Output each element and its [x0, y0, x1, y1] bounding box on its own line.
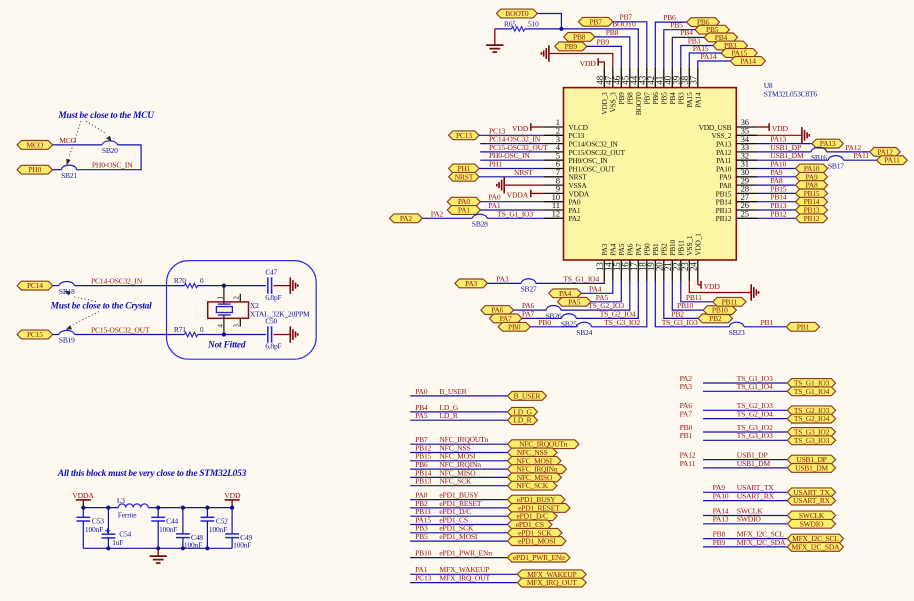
wire NFC_IRQOUTn	[410, 443, 507, 445]
wire TS_G3_IO3	[703, 439, 787, 441]
port ePD1_D/C	[508, 512, 558, 521]
svg-text:TS_G2_IO4: TS_G2_IO4	[737, 410, 773, 419]
pin 45 PB8	[620, 67, 634, 105]
svg-text:PB1: PB1	[680, 431, 693, 440]
pin 15 PA5	[612, 243, 626, 281]
pin 20 PB2	[654, 243, 668, 281]
pin 17 PA7	[629, 243, 643, 281]
svg-text:VDD: VDD	[512, 124, 529, 133]
wire MFX_WAKEUP	[410, 573, 517, 575]
wire TS_G3_IO2	[703, 431, 787, 433]
svg-text:PB9: PB9	[565, 42, 578, 51]
svg-text:12: 12	[552, 209, 560, 219]
pin 34 PA13	[716, 134, 757, 149]
junction node OSC32_OUT	[222, 332, 226, 336]
svg-text:PA13: PA13	[713, 515, 729, 524]
svg-text:PH0-OSC_IN: PH0-OSC_IN	[92, 161, 133, 170]
pin 41 PB5	[654, 67, 668, 105]
svg-text:SB19: SB19	[59, 336, 75, 345]
svg-text:LD_R: LD_R	[439, 411, 458, 420]
svg-text:PB9: PB9	[597, 37, 610, 46]
svg-text:2: 2	[234, 296, 241, 300]
wire pin 21 to PB10	[672, 281, 703, 310]
svg-text:ePD1_PWR_ENn: ePD1_PWR_ENn	[439, 549, 492, 558]
wire PA0	[480, 201, 543, 203]
port PB0	[498, 322, 530, 331]
svg-text:USART_RX: USART_RX	[793, 496, 830, 505]
port PB4	[704, 33, 737, 42]
svg-text:PB10: PB10	[415, 549, 431, 558]
svg-text:VDD: VDD	[580, 59, 597, 68]
svg-text:TS_G1_IO4: TS_G1_IO4	[737, 382, 773, 391]
junction bottom rail 3	[181, 546, 185, 550]
wire ePD1_D/C	[410, 515, 507, 517]
wire PA3 to SB27	[487, 282, 521, 284]
wire PB9 to pin 46	[587, 46, 622, 66]
svg-text:VDD_1: VDD_1	[694, 233, 703, 256]
svg-text:PB12: PB12	[716, 214, 732, 223]
junction BOOT0	[559, 27, 563, 31]
svg-text:ePD1_PWR_ENn: ePD1_PWR_ENn	[513, 553, 565, 562]
port PA13	[812, 139, 843, 148]
port PA9	[796, 172, 828, 181]
svg-text:VDD: VDD	[224, 491, 241, 500]
wire VSS_3 ground to pin 47	[549, 54, 613, 67]
svg-text:PB7: PB7	[620, 13, 633, 22]
dotted leader to SB21	[65, 121, 81, 166]
svg-text:PA14: PA14	[740, 57, 756, 66]
junction top rail 6	[230, 506, 234, 510]
solder bridge SB18	[59, 282, 75, 296]
wire PA7 to SB25	[522, 317, 562, 319]
wire ePD1_PWR_ENn	[410, 557, 507, 559]
svg-text:VDDA: VDDA	[507, 190, 529, 199]
svg-text:SB23: SB23	[729, 328, 745, 337]
pin 42 PB6	[646, 67, 660, 105]
svg-text:PA13: PA13	[820, 139, 836, 148]
pin 8 VSSA	[543, 175, 587, 190]
svg-text:PA11: PA11	[680, 459, 696, 468]
wire MFX_IRQ_OUT	[410, 582, 517, 584]
wire pin 19 to SB23	[655, 281, 729, 327]
svg-text:R71: R71	[174, 325, 186, 334]
port PA11	[877, 156, 908, 165]
port PH0	[17, 165, 52, 174]
wire C48 branch top	[182, 508, 184, 534]
wire R70 to node	[198, 285, 224, 287]
port NFC_MOSI	[508, 456, 562, 465]
port MFX_I2C_SCL	[787, 534, 843, 543]
wire PA14 to pin 37	[698, 61, 731, 67]
wire PB15	[757, 192, 796, 194]
svg-text:PA11: PA11	[853, 151, 869, 160]
wire ePD1_MOSI	[410, 540, 507, 542]
svg-text:SB17: SB17	[828, 161, 844, 170]
dotted leader to SB19	[65, 312, 99, 332]
svg-text:PA0: PA0	[415, 387, 428, 396]
port PC14	[17, 281, 53, 290]
port ePD1_MOSI	[508, 537, 567, 546]
wire PA13	[757, 143, 812, 145]
solder bridge SB25	[561, 314, 577, 329]
svg-text:PA3: PA3	[496, 274, 509, 283]
wire PB4 to pin 40	[672, 37, 704, 66]
wire C52 branch bottom	[206, 521, 208, 548]
wire top rail right	[148, 507, 232, 509]
svg-text:NRST: NRST	[455, 172, 474, 181]
wire PH0-OSC_IN	[480, 159, 543, 161]
wire C53 branch top	[82, 508, 84, 518]
svg-text:TS_G1_IO3: TS_G1_IO3	[497, 209, 533, 218]
pin 43 PB7	[637, 67, 651, 105]
port PB2	[698, 314, 732, 323]
port ePD1_SCK	[508, 528, 563, 537]
pin 13 PA3	[595, 243, 609, 281]
svg-text:PB10: PB10	[712, 306, 728, 315]
svg-text:PA1: PA1	[458, 206, 470, 215]
solder bridge SB23	[729, 322, 745, 337]
wire PC14-OSC32_IN	[480, 143, 543, 145]
svg-text:C47: C47	[265, 268, 277, 277]
port TS_G3_IO3	[787, 436, 835, 445]
wire NFC_MOSI	[410, 460, 507, 462]
port PA3	[455, 279, 488, 288]
resistor R70	[174, 276, 204, 288]
wire ground to R65	[495, 28, 512, 30]
svg-text:R70: R70	[174, 276, 186, 285]
svg-text:MCO: MCO	[59, 136, 76, 145]
svg-text:PA11: PA11	[884, 156, 900, 165]
port TS_G1_IO4	[787, 387, 835, 396]
wire PH0 to SB21	[53, 169, 62, 171]
not fitted dashed region box	[167, 261, 317, 360]
port SWDIO	[787, 519, 835, 528]
pin 24 VDD_1	[688, 233, 702, 281]
wire SB16 to PA12	[827, 151, 870, 153]
pin 48 VDD_3	[595, 67, 609, 115]
svg-text:PB2: PB2	[709, 314, 722, 323]
svg-text:ePD1_MOSI: ePD1_MOSI	[518, 537, 556, 546]
pin 30 PA9	[719, 167, 757, 182]
svg-text:PA2: PA2	[400, 214, 412, 223]
svg-text:MCO: MCO	[27, 140, 44, 149]
solder bridge SB20	[102, 141, 118, 155]
solder bridge SB26	[546, 305, 562, 320]
capacitor C47 6.8pF	[265, 268, 281, 302]
svg-text:PA7: PA7	[680, 410, 693, 419]
wire C49 branch bottom	[231, 538, 233, 549]
port B_USER	[508, 391, 547, 400]
svg-text:ePD1_MOSI: ePD1_MOSI	[439, 532, 478, 541]
wire C44 branch top	[157, 508, 159, 518]
port PA5	[558, 297, 591, 306]
port ePD1_BUSY	[508, 495, 566, 504]
svg-text:25: 25	[741, 209, 749, 219]
wire node to C47	[224, 285, 266, 287]
wire SB17 to PA11	[843, 159, 877, 161]
wire TS_G2_IO3	[703, 409, 787, 411]
svg-text:SB28: SB28	[472, 220, 488, 229]
svg-text:PC13: PC13	[456, 131, 472, 140]
pin 1 VLCD	[543, 117, 588, 132]
capacitor C48 100nF	[176, 533, 203, 550]
svg-text:1: 1	[217, 296, 224, 299]
svg-text:VDDA: VDDA	[72, 491, 94, 500]
svg-text:6.8pF: 6.8pF	[265, 342, 281, 351]
svg-text:B_USER: B_USER	[514, 391, 541, 400]
svg-text:SB20: SB20	[102, 146, 118, 155]
pin 35 VSS_2	[711, 126, 757, 141]
port NFC_SCK	[508, 481, 558, 490]
wire PC15 to SB19	[53, 334, 59, 336]
ground at R65	[486, 29, 503, 52]
port PC13	[449, 131, 480, 140]
wire NFC_MISO	[410, 476, 507, 478]
svg-text:NFC_SCK: NFC_SCK	[516, 481, 548, 490]
port NFC_MISO	[508, 473, 562, 482]
wire C48 branch bottom	[182, 538, 184, 549]
svg-text:PB8: PB8	[606, 28, 619, 37]
svg-text:B_USER: B_USER	[439, 387, 467, 396]
svg-text:L3: L3	[117, 496, 125, 505]
svg-text:Ferrite: Ferrite	[118, 510, 137, 519]
pin 37 PA14	[688, 67, 702, 108]
svg-text:MFX_I2C_SDA: MFX_I2C_SDA	[791, 542, 840, 551]
wire SB25 to pin 17	[576, 281, 638, 318]
ground at VSS_1 (pin 23)	[751, 284, 758, 300]
svg-text:PB8: PB8	[573, 32, 586, 41]
solder bridge SB28	[472, 214, 488, 228]
wire USB1_DP to SB16	[757, 151, 811, 153]
wire PA6 to SB26	[514, 309, 547, 311]
port PB3	[713, 41, 748, 50]
capacitor C49 100nF	[225, 533, 252, 550]
port LD_R	[508, 416, 538, 425]
wire pin 20 to PB2	[664, 281, 698, 318]
svg-text:TS_G3_IO2: TS_G3_IO2	[604, 318, 640, 327]
port PB11	[713, 297, 746, 306]
wire NFC_SCK	[410, 485, 507, 487]
junction bottom rail 1	[106, 546, 110, 550]
svg-text:24: 24	[688, 262, 698, 271]
pin 2 PC13	[543, 126, 584, 141]
solder bridge SB19	[59, 330, 75, 344]
port PA1	[447, 206, 480, 215]
port PB7	[578, 17, 613, 26]
svg-text:PC14-OSC32_IN: PC14-OSC32_IN	[91, 277, 143, 286]
port ePD1_CS	[508, 520, 553, 529]
svg-text:PA7: PA7	[522, 309, 535, 318]
svg-text:PA14: PA14	[694, 92, 703, 108]
svg-text:TS_G3_IO3: TS_G3_IO3	[794, 436, 830, 445]
wire SB20 to corner and down to PH0-OSC_IN	[77, 145, 142, 170]
wire SB19 to R71	[75, 334, 185, 336]
svg-text:PA3: PA3	[680, 382, 693, 391]
svg-text:100nF: 100nF	[209, 525, 227, 534]
inductor L3 Ferrite	[117, 496, 148, 520]
svg-text:PB12: PB12	[770, 209, 786, 218]
ground at VSSA (pin 8)	[497, 177, 504, 193]
wire SB24 to pin 18	[592, 281, 647, 327]
solder bridge SB21	[61, 165, 77, 180]
svg-text:TS_G3_IO3: TS_G3_IO3	[737, 431, 773, 440]
port USB1_DP	[787, 455, 835, 464]
svg-text:PC13: PC13	[415, 574, 431, 583]
port PB13	[796, 206, 828, 215]
wire NRST	[479, 176, 543, 178]
wire SB28 to pin 12	[487, 217, 543, 219]
svg-text:3: 3	[234, 324, 241, 328]
wire ePD1_CS	[410, 524, 507, 526]
pin 7 NRST	[543, 167, 587, 182]
svg-text:PA14: PA14	[701, 52, 717, 61]
port ePD1_PWR_ENn	[508, 553, 571, 562]
svg-text:PA3: PA3	[465, 279, 477, 288]
pin 31 PA10	[716, 159, 757, 174]
port PB15	[796, 189, 828, 198]
wire PC14 to SB18	[53, 285, 59, 287]
junction top rail 2	[106, 506, 110, 510]
svg-text:510: 510	[528, 19, 539, 28]
port NFC_IRQINn	[508, 465, 567, 474]
svg-text:SB18: SB18	[59, 287, 75, 296]
wire PC15-OSC32_OUT	[480, 151, 543, 153]
wire PB14	[757, 201, 796, 203]
pin 4 PC15/OSC32_OUT	[543, 142, 625, 157]
port TS_G3_IO2	[787, 428, 835, 437]
wire USART_TX	[703, 491, 787, 493]
wire PA9	[757, 176, 796, 178]
pin 11 PA1	[543, 200, 581, 215]
wire MFX_I2C_SDA	[703, 546, 787, 548]
wire ePD1_BUSY	[410, 499, 507, 501]
wire PB12	[757, 217, 796, 219]
svg-text:SWDIO: SWDIO	[737, 515, 762, 524]
svg-text:PC14: PC14	[27, 281, 43, 290]
svg-text:TS_G2_IO4: TS_G2_IO4	[794, 414, 830, 423]
pin 3 PC14/OSC32_IN	[543, 134, 618, 149]
svg-text:PB0: PB0	[538, 318, 551, 327]
ground (power filter)	[150, 548, 167, 563]
pin 25 PB12	[716, 209, 757, 224]
wire BOOT0 to pin 44	[561, 29, 638, 67]
wire TS_G2_IO4	[703, 418, 787, 420]
pin 29 PA8	[719, 175, 757, 190]
capacitor C54 1uF	[102, 528, 132, 547]
port PA0	[447, 197, 480, 206]
pin 21 PB10	[663, 239, 677, 281]
port TS_G1_IO3	[787, 379, 835, 388]
wire MCO to SB20	[53, 144, 103, 146]
wire NFC_IRQINn	[410, 468, 507, 470]
svg-text:PA10: PA10	[713, 492, 729, 501]
capacitor C50 6.8pF	[265, 317, 281, 351]
svg-text:SWDIO: SWDIO	[800, 519, 824, 528]
svg-text:Not Fitted: Not Fitted	[207, 341, 246, 351]
wire C52 branch top	[206, 508, 208, 518]
svg-text:100nF: 100nF	[184, 541, 202, 550]
svg-text:100nF: 100nF	[233, 541, 251, 550]
capacitor C52 100nF	[201, 516, 229, 534]
wire LD_G	[410, 411, 507, 413]
pin 40 PB4	[663, 67, 677, 105]
wire C49 branch top	[231, 508, 233, 534]
svg-text:0: 0	[200, 325, 204, 334]
port NFC_IRQOUTn	[508, 440, 580, 449]
wire PA8	[757, 184, 796, 186]
svg-text:STM32L053C8T6: STM32L053C8T6	[764, 90, 818, 99]
power port VDD (pin 24)	[698, 281, 721, 291]
pin 16 PA6	[620, 243, 634, 281]
port PA4	[549, 289, 582, 298]
wire PA4 to pin 14	[581, 281, 613, 293]
port ePD1_RESET	[508, 503, 571, 512]
svg-text:PH0: PH0	[28, 165, 41, 174]
wire C54 branch bottom	[107, 538, 109, 548]
ground at VSS_3 (pin 47)	[542, 45, 549, 61]
resistor R65 510	[504, 19, 539, 31]
svg-text:PA2: PA2	[569, 214, 581, 223]
pin 9 VDDA	[543, 184, 590, 199]
junction bottom rail 2	[156, 546, 160, 550]
junction top rail 1	[81, 506, 85, 510]
svg-text:PB1: PB1	[797, 322, 810, 331]
svg-text:PB5: PB5	[415, 532, 428, 541]
svg-text:SB21: SB21	[61, 171, 77, 180]
crystal X2 XTAL_32K_20PPM	[208, 286, 310, 335]
port MCO	[17, 140, 52, 149]
svg-text:PB11: PB11	[722, 297, 738, 306]
wire ePD1_SCK	[410, 532, 507, 534]
pin 14 PA4	[603, 243, 617, 281]
svg-text:VDD: VDD	[772, 124, 789, 133]
pin 10 PA0	[543, 192, 581, 207]
svg-text:LD_R: LD_R	[514, 416, 532, 425]
wire LD_R	[410, 419, 507, 421]
ground at VSS_2 (pin 35)	[802, 127, 809, 143]
svg-text:PH1: PH1	[489, 160, 502, 169]
wire VSS_2 to ground	[757, 134, 802, 136]
wire SB18 to R70	[75, 285, 185, 287]
junction top rail 3	[156, 506, 160, 510]
svg-text:R65: R65	[504, 19, 516, 28]
wire C54 branch top	[107, 508, 109, 535]
wire top rail left	[83, 507, 118, 509]
wire ePD1_RESET	[410, 507, 507, 509]
svg-text:PB12: PB12	[804, 214, 820, 223]
svg-text:100nF: 100nF	[85, 525, 103, 534]
port PB12	[796, 214, 828, 223]
resistor R71	[174, 325, 204, 337]
svg-text:Must be close to the MCU: Must be close to the MCU	[57, 111, 155, 121]
svg-text:100nF: 100nF	[159, 525, 177, 534]
pin 18 PB0	[637, 243, 651, 281]
port PB10	[703, 306, 736, 315]
port PA8	[796, 181, 828, 190]
pin 23 VSS_1	[680, 235, 694, 281]
svg-text:BOOT0: BOOT0	[505, 9, 529, 18]
port PA7	[489, 314, 522, 323]
svg-text:USB1_DM: USB1_DM	[795, 463, 828, 472]
wire C50 to ground	[274, 334, 291, 336]
svg-text:PA5: PA5	[568, 297, 580, 306]
port PB1	[786, 322, 819, 331]
ground at C47	[290, 277, 297, 293]
wire VSSA to ground	[504, 184, 543, 186]
wire MFX_I2C_SCL	[703, 538, 787, 540]
port TS_G2_IO4	[787, 414, 835, 423]
junction node OSC32_IN	[222, 284, 226, 288]
